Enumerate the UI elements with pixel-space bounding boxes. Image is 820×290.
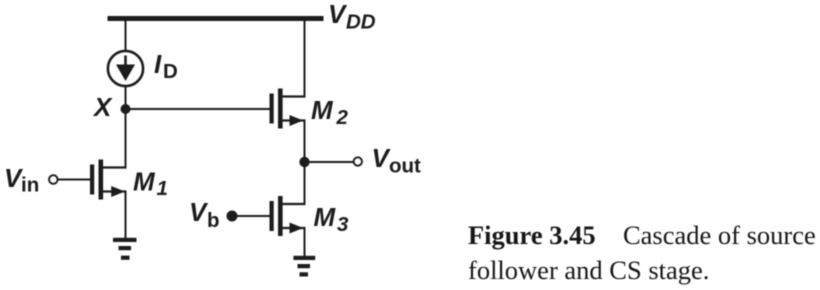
svg-text:2: 2	[336, 106, 349, 129]
svg-text:X: X	[92, 92, 113, 122]
svg-text:out: out	[389, 155, 421, 178]
svg-text:M: M	[314, 202, 337, 232]
svg-text:follower and CS stage.: follower and CS stage.	[468, 255, 709, 285]
svg-text:in: in	[21, 174, 39, 197]
svg-text:b: b	[207, 209, 220, 232]
svg-text:DD: DD	[346, 11, 376, 34]
svg-text:V: V	[189, 197, 209, 227]
svg-text:1: 1	[157, 177, 168, 200]
svg-text:M: M	[311, 95, 334, 125]
svg-text:M: M	[133, 167, 156, 197]
svg-text:3: 3	[337, 213, 349, 236]
svg-text:D: D	[163, 60, 178, 83]
svg-text:V: V	[328, 0, 348, 29]
svg-text:I: I	[154, 49, 162, 79]
svg-text:Figure 3.45Cascade of source: Figure 3.45Cascade of source	[468, 220, 816, 250]
